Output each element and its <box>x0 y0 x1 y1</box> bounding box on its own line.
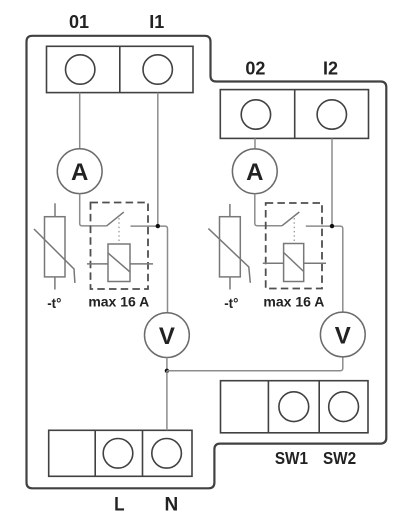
relay 2 dashed enclosure <box>266 203 322 289</box>
relay 2 actuator dotted link <box>293 218 295 243</box>
thermistor 1 <box>34 203 75 289</box>
wire I1 down to node <box>157 93 159 227</box>
relay 1 dashed enclosure <box>91 203 149 290</box>
device outline (stepped border) <box>27 36 387 489</box>
wire neutral connector V1-V2 <box>167 357 343 371</box>
switch fixed contact + wire to V1 <box>131 226 168 313</box>
ammeter A2 <box>232 149 277 194</box>
svg-text:N: N <box>164 495 178 516</box>
terminal block SW1/SW2 <box>221 381 369 433</box>
svg-text:V: V <box>159 323 175 350</box>
svg-text:02: 02 <box>245 58 265 78</box>
wire I2 down to node <box>331 138 333 226</box>
relay 1 actuator dotted link <box>118 218 120 244</box>
svg-text:-t°: -t° <box>224 296 238 311</box>
svg-text:V: V <box>335 322 351 349</box>
terminal block O1/I1 <box>47 46 194 92</box>
relay coil 1 <box>87 244 153 282</box>
ammeter A1 <box>57 149 102 194</box>
svg-text:A: A <box>71 159 88 186</box>
relay coil 2 <box>263 244 326 282</box>
terminal block O2/I2 <box>220 90 368 139</box>
switch blade SW relay 2 <box>282 212 299 226</box>
switch blade SW relay 1 <box>107 212 124 226</box>
svg-text:L: L <box>114 494 124 515</box>
wire O1 to ammeter A1 <box>79 93 81 149</box>
thermistor 2 <box>208 204 250 290</box>
voltmeter V1 <box>145 313 190 358</box>
wire V1 down to node <box>166 358 168 371</box>
svg-text:max 16 A: max 16 A <box>263 294 324 310</box>
svg-text:A: A <box>246 159 263 186</box>
svg-text:I2: I2 <box>323 58 338 78</box>
svg-text:SW1: SW1 <box>275 448 308 468</box>
svg-text:max 16 A: max 16 A <box>88 294 149 310</box>
wire A1 to switch pivot <box>80 194 107 226</box>
junction node I2/switch <box>330 224 334 228</box>
terminal block L/N <box>49 430 192 476</box>
wire node to N terminal <box>166 371 168 431</box>
junction node V1/N <box>165 369 169 373</box>
junction node I1/switch <box>156 224 160 228</box>
svg-text:SW2: SW2 <box>323 448 356 468</box>
wire A2 to switch pivot <box>255 194 282 226</box>
switch fixed contact 2 + wire to V2 <box>306 226 343 312</box>
wire O2 to ammeter A2 <box>254 138 256 149</box>
svg-text:I1: I1 <box>149 12 164 32</box>
svg-text:01: 01 <box>69 12 89 32</box>
voltmeter V2 <box>320 312 365 357</box>
svg-text:-t°: -t° <box>47 296 61 311</box>
